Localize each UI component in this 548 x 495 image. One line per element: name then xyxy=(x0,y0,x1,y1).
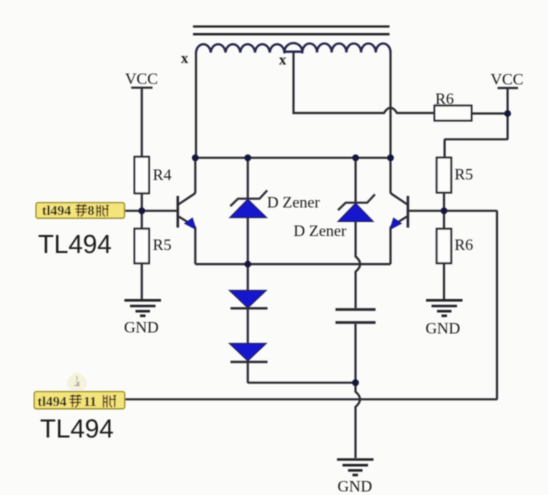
svg-text:GND: GND xyxy=(426,321,461,338)
svg-text:R6: R6 xyxy=(455,237,474,254)
svg-text:GND: GND xyxy=(124,320,159,337)
svg-text:x: x xyxy=(181,51,189,67)
svg-text:x: x xyxy=(279,53,287,69)
svg-text:D Zener: D Zener xyxy=(267,195,321,212)
svg-text:VCC: VCC xyxy=(125,71,158,88)
svg-text:GND: GND xyxy=(338,479,373,495)
svg-text:11: 11 xyxy=(84,394,97,409)
svg-text:R4: R4 xyxy=(153,167,172,184)
svg-text:VCC: VCC xyxy=(491,72,524,89)
svg-text:tl494: tl494 xyxy=(38,394,67,409)
svg-text:R5: R5 xyxy=(455,167,474,184)
svg-text:R6: R6 xyxy=(435,91,454,108)
svg-text:tl494: tl494 xyxy=(42,203,71,218)
svg-text:TL494: TL494 xyxy=(40,414,114,444)
svg-text:8: 8 xyxy=(88,203,95,218)
svg-text:D Zener: D Zener xyxy=(294,223,348,240)
svg-text:TL494: TL494 xyxy=(38,229,112,259)
svg-text:R5: R5 xyxy=(153,237,172,254)
